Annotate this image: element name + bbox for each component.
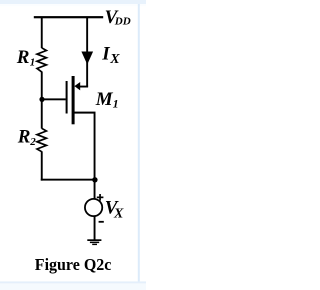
svg-text:X: X bbox=[113, 207, 124, 222]
wire bbox=[41, 17, 43, 48]
svg-text:Figure Q2c: Figure Q2c bbox=[35, 255, 112, 274]
resistor R1 bbox=[37, 48, 46, 72]
current arrow IX bbox=[81, 52, 93, 65]
transistor M1 bbox=[66, 76, 96, 124]
svg-text:1: 1 bbox=[30, 56, 36, 68]
svg-text:DD: DD bbox=[114, 16, 131, 28]
ground bbox=[87, 239, 101, 245]
svg-text:R: R bbox=[17, 127, 31, 148]
wire drain vertical bbox=[86, 17, 88, 87]
wire source vertical bbox=[94, 112, 96, 199]
net VDD bbox=[105, 7, 131, 28]
wire bbox=[41, 99, 43, 128]
label R1 bbox=[16, 47, 36, 68]
label VX bbox=[105, 198, 124, 222]
wire bbox=[41, 72, 43, 100]
svg-text:2: 2 bbox=[29, 136, 36, 148]
resistor R2 bbox=[37, 128, 46, 151]
wire gate bbox=[42, 98, 66, 100]
wire bottom horizontal bbox=[41, 179, 96, 181]
voltage source VX bbox=[85, 194, 104, 223]
label M1 bbox=[95, 89, 119, 111]
label IX bbox=[101, 43, 120, 67]
node gate junction bbox=[39, 97, 44, 102]
svg-text:X: X bbox=[109, 52, 120, 67]
node bottom junction bbox=[92, 177, 97, 182]
svg-text:M: M bbox=[95, 89, 114, 110]
svg-text:1: 1 bbox=[113, 97, 119, 111]
label R2 bbox=[17, 127, 36, 149]
wire bbox=[41, 151, 43, 180]
wire VDD rail bbox=[34, 16, 103, 18]
svg-text:R: R bbox=[16, 47, 30, 68]
wire to ground bbox=[94, 216, 96, 240]
svg-text:I: I bbox=[101, 43, 110, 64]
